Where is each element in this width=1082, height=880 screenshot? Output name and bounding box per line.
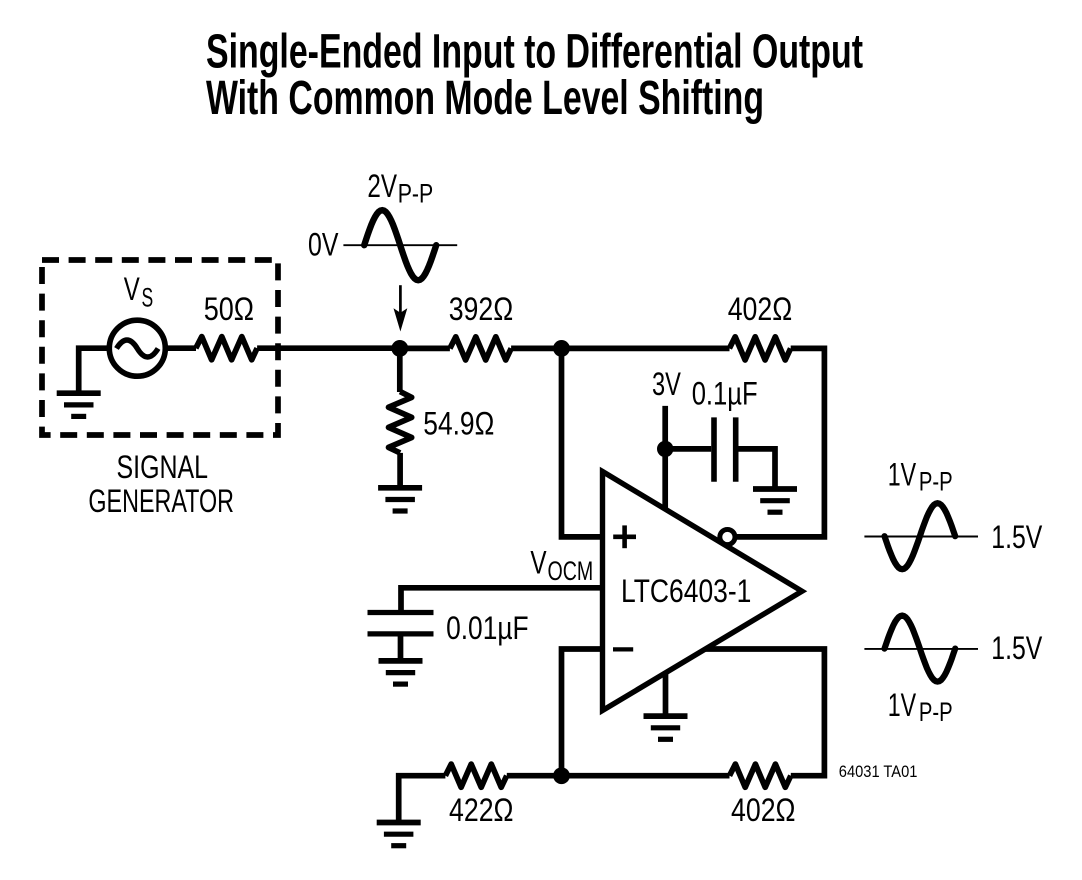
svg-text:422Ω: 422Ω	[449, 792, 514, 828]
svg-text:Single-Ended Input to Differen: Single-Ended Input to Differential Outpu…	[206, 26, 863, 79]
wire: node A to resistor 392	[400, 346, 450, 352]
svg-text:402Ω: 402Ω	[728, 291, 793, 327]
voltage source VS circle	[109, 320, 165, 376]
svg-text:V: V	[124, 271, 140, 307]
svg-text:P-P: P-P	[919, 467, 953, 497]
wire: node B down to +input	[562, 348, 601, 537]
op-amp U1 LTC6403-1 triangle	[603, 472, 803, 711]
svg-text:S: S	[142, 283, 154, 313]
wire: resistor 54.9 to ground	[397, 453, 403, 487]
resistor 392 ohm	[450, 337, 511, 360]
op-amp + input marking	[613, 534, 636, 539]
voltage source sine symbol	[117, 340, 159, 357]
wire: capacitor 0.1uF to ground	[739, 449, 776, 487]
wire: source to resistor 50	[164, 345, 196, 351]
output waveform sine bottom	[885, 616, 956, 682]
op-amp - input marking	[613, 647, 633, 651]
svg-text:1V: 1V	[888, 456, 917, 492]
resistor 402 ohm top feedback	[729, 337, 790, 360]
ground below resistor 54.9	[378, 485, 422, 491]
ground of signal source	[57, 390, 101, 396]
resistor 422 ohm	[445, 764, 506, 787]
resistor 54.9 ohm vertical	[389, 392, 412, 453]
resistor 50 ohm	[196, 337, 257, 360]
svg-text:LTC6403-1: LTC6403-1	[621, 573, 751, 609]
ground of 0.1uF	[753, 486, 797, 492]
wire: 3V stub down to op-amp top	[662, 406, 668, 509]
wire: node A down to resistor 54.9	[397, 348, 403, 392]
wire: -input to node C	[562, 649, 601, 776]
svg-text:1.5V: 1.5V	[991, 519, 1043, 555]
op-amp inverted output bubble	[720, 529, 735, 544]
wire: source left lead to ground	[79, 348, 111, 391]
svg-text:54.9Ω: 54.9Ω	[423, 405, 494, 441]
node B junction dot	[553, 340, 570, 357]
wire: capacitor 0.01uF to ground	[398, 636, 404, 659]
capacitor 0.1uF plates	[711, 417, 717, 481]
capacitor 0.01uF plates	[368, 610, 434, 615]
svg-text:392Ω: 392Ω	[449, 291, 514, 327]
wire: VOCM input	[401, 585, 600, 591]
ground of op-amp	[644, 713, 688, 719]
arrow from waveform to node A	[399, 285, 402, 314]
resistor 402 ohm bottom feedback	[730, 764, 791, 787]
wire: bottom feedback from op-amp output	[706, 649, 825, 776]
wire: 3V node to capacitor 0.1uF	[665, 446, 711, 452]
svg-text:50Ω: 50Ω	[204, 291, 254, 327]
svg-text:3V: 3V	[652, 366, 681, 402]
node A junction dot	[391, 340, 408, 357]
input waveform 0V axis line	[343, 244, 457, 246]
svg-text:GENERATOR: GENERATOR	[88, 483, 234, 519]
output waveform axis line top	[864, 536, 978, 538]
output waveform axis line bottom	[864, 648, 978, 650]
svg-text:2V: 2V	[367, 168, 397, 204]
wire: resistor 422 to ground	[399, 776, 446, 821]
svg-text:402Ω: 402Ω	[731, 792, 796, 828]
ground of 0.01uF	[379, 658, 423, 664]
wire: resistor 50 to node A	[257, 345, 400, 351]
svg-text:1V: 1V	[888, 687, 917, 723]
svg-text:SIGNAL: SIGNAL	[117, 449, 209, 485]
wire: resistor 402 top to inverted output	[737, 348, 825, 537]
wire: VOCM corner down to capacitor 0.01uF	[398, 585, 404, 610]
svg-text:With Common Mode Level Shiftin: With Common Mode Level Shifting	[206, 72, 764, 125]
svg-text:P-P: P-P	[398, 179, 434, 209]
svg-text:0.01µF: 0.01µF	[446, 610, 528, 646]
svg-text:0V: 0V	[308, 226, 339, 262]
svg-text:64031 TA01: 64031 TA01	[839, 762, 918, 781]
wire: node C to resistor 422	[507, 773, 562, 779]
wire: node B to resistor 402 top	[562, 346, 730, 352]
svg-text:V: V	[530, 545, 547, 581]
input waveform sine 2V peak-to-peak	[364, 210, 436, 280]
svg-text:P-P: P-P	[919, 697, 953, 727]
3V node junction dot	[657, 441, 673, 457]
wire: resistor 392 to node B	[511, 346, 561, 352]
svg-text:1.5V: 1.5V	[991, 630, 1043, 666]
wire: op-amp bottom ground stub	[663, 673, 669, 714]
ground of resistor 422	[377, 820, 421, 826]
signal generator dashed box	[42, 260, 278, 435]
svg-text:OCM: OCM	[548, 556, 594, 586]
svg-text:0.1µF: 0.1µF	[692, 376, 758, 412]
wire: resistor 402 bottom to node C	[562, 773, 730, 779]
node C junction dot	[553, 767, 570, 784]
output waveform sine top (inverted)	[885, 503, 956, 569]
